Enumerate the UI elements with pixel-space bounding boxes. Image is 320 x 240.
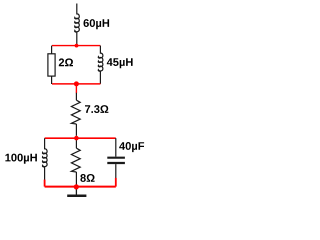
ground <box>67 189 86 196</box>
wire bottom of output section <box>45 186 116 188</box>
node B junction dot <box>74 81 79 86</box>
resistor R2 7.3Ω (zigzag) <box>71 93 80 136</box>
label 60µH <box>84 19 110 29</box>
label 40µF <box>119 142 144 152</box>
label 100µH <box>5 154 37 164</box>
wire top of parallel 2Ω/45µH pair <box>52 45 100 47</box>
wire 40µF lead to bottom wire <box>115 178 117 187</box>
wire bottom of parallel 2Ω/45µH pair <box>52 83 100 85</box>
resistor R3 8Ω (zigzag) <box>71 138 80 186</box>
wire 100µH lead to bottom wire <box>44 180 46 187</box>
capacitor C1 40µF <box>107 138 125 178</box>
label 7.3Ω <box>85 105 108 113</box>
label 8Ω <box>80 174 94 182</box>
node D junction dot <box>74 184 79 189</box>
inductor L1 60µH <box>75 4 80 45</box>
inductor L2 45µH <box>98 46 103 84</box>
resistor R1 2Ω (box) <box>48 46 55 84</box>
wire node B down to R 7.3Ω <box>75 84 77 93</box>
label 2Ω <box>59 58 73 66</box>
node C junction dot <box>74 136 79 141</box>
label 45µH <box>107 58 133 68</box>
wire top of output section <box>45 137 116 139</box>
inductor L3 100µH <box>43 138 48 180</box>
node A junction dot <box>75 44 79 48</box>
